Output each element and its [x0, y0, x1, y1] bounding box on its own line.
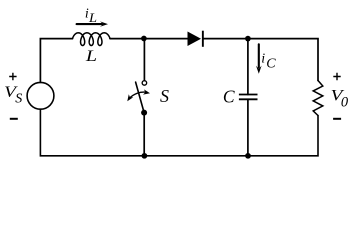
switch S motion arrow [129, 92, 147, 99]
label C [223, 86, 235, 106]
label L [85, 48, 98, 65]
svg-text:C: C [223, 86, 235, 106]
polarity + of VS [9, 73, 16, 80]
node: capacitor top junction [245, 36, 251, 42]
svg-text:0: 0 [341, 94, 349, 110]
current arrow iL head [100, 21, 108, 26]
svg-text:S: S [15, 91, 22, 106]
label V0 [331, 88, 349, 111]
label iL [85, 6, 97, 24]
switch S pivot dot [141, 110, 147, 116]
wire: capacitor branch upper [247, 39, 249, 95]
switch motion arrow heads [127, 89, 150, 101]
wire: capacitor branch lower [247, 99, 249, 156]
diode D1 [188, 31, 204, 47]
resistor (load) [313, 81, 323, 116]
wire: resistor to bottom-right corner, bottom wire, up to source [40, 109, 318, 156]
svg-text:i: i [261, 51, 265, 66]
node: switch top junction [141, 36, 147, 42]
svg-text:L: L [88, 10, 97, 25]
current arrow iC head [256, 66, 262, 74]
switch S lever [136, 82, 145, 113]
polarity + of V0 [333, 73, 340, 80]
node: capacitor bottom junction [245, 153, 251, 159]
wire: switch branch upper [143, 39, 145, 81]
svg-text:L: L [85, 48, 98, 65]
inductor L [72, 33, 110, 46]
svg-text:C: C [266, 56, 276, 71]
current arrow iC line [258, 44, 260, 67]
wire: inductor to diode [110, 38, 188, 40]
wire: diode to top-right corner, down to resistor [203, 39, 318, 81]
label S [160, 86, 169, 106]
current arrow iL line [77, 23, 102, 25]
label VS [4, 84, 22, 107]
capacitor C plates [239, 95, 258, 100]
wire: switch branch lower [143, 113, 145, 156]
svg-text:S: S [160, 86, 169, 106]
polarity - of V0 [333, 118, 341, 120]
voltage source VS [27, 82, 54, 109]
switch S open terminal [142, 81, 147, 86]
polarity - of VS [10, 118, 18, 120]
label iC [261, 51, 276, 71]
node: switch bottom junction [142, 153, 148, 159]
wire top-left: source to inductor [40, 39, 72, 83]
